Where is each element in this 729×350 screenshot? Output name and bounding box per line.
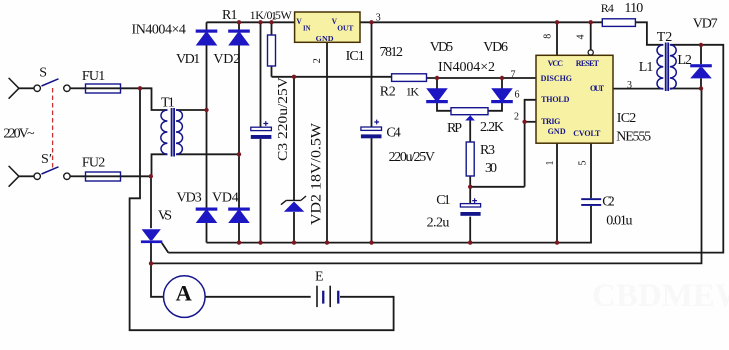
- node rail IC2 GND: [555, 240, 559, 244]
- svg-text:VD2: VD2: [213, 52, 240, 67]
- svg-text:OUT: OUT: [337, 23, 353, 32]
- capacitor C3: [251, 121, 272, 139]
- wire IC2 pin5 to C2: [590, 143, 592, 198]
- wire gate rail to T2 L2 top: [168, 45, 723, 253]
- node rail C3: [258, 240, 262, 244]
- svg-text:VD6: VD6: [483, 40, 508, 55]
- svg-text:C1: C1: [436, 193, 450, 208]
- svg-text:1: 1: [271, 8, 277, 22]
- svg-text:VCC: VCC: [548, 59, 564, 68]
- svg-text:30: 30: [485, 161, 497, 176]
- wire C2 bottom bend: [557, 206, 591, 243]
- wire IC2 pin4: [590, 22, 592, 50]
- switch S: [9, 78, 71, 99]
- svg-text:GND: GND: [548, 127, 566, 136]
- wire VD6 top lead: [501, 78, 503, 89]
- svg-text:4: 4: [576, 35, 587, 40]
- diode VD4: [228, 208, 250, 224]
- svg-text:7812: 7812: [380, 45, 404, 60]
- wire ammeter left: [151, 263, 163, 296]
- node secondary top: [204, 108, 208, 112]
- node pin8: [555, 20, 559, 24]
- svg-text:R4: R4: [601, 1, 614, 15]
- wire THOLD line: [525, 100, 536, 187]
- resistor R1: [268, 35, 276, 66]
- node pin4: [589, 20, 593, 24]
- wire VD6 bottom to RP: [488, 103, 502, 111]
- wire VD5 top lead: [436, 78, 438, 89]
- wire IC1 GND column: [326, 42, 328, 242]
- svg-text:THOLD: THOLD: [541, 95, 570, 104]
- svg-text:VD3: VD3: [177, 191, 202, 206]
- wire pin3 C4 column: [371, 22, 373, 242]
- resistor R4: [602, 19, 635, 27]
- svg-text:5: 5: [578, 161, 589, 166]
- node rail VD4: [237, 240, 241, 244]
- wire top rail left: [207, 21, 295, 23]
- capacitor C1: [460, 198, 480, 216]
- node VS cathode: [149, 261, 153, 265]
- zener diode VD2 18V: [281, 196, 306, 212]
- svg-text:VS: VS: [158, 208, 172, 223]
- resistor R2: [392, 74, 427, 82]
- svg-text:3: 3: [627, 80, 632, 91]
- wire through FU1 to junction: [81, 87, 140, 89]
- svg-text:DISCHG: DISCHG: [541, 74, 572, 83]
- transformer T1: [161, 110, 183, 154]
- wire R2 right to IC2 DISCHG: [427, 77, 537, 79]
- svg-text:IC1: IC1: [346, 49, 365, 64]
- fuse FU1: [86, 84, 121, 93]
- RESET pin bubble: [588, 50, 593, 55]
- node R3 bottom: [468, 185, 472, 189]
- wire S' to FU2: [70, 175, 81, 177]
- diode VD5: [426, 88, 448, 103]
- capacitor C2: [581, 198, 601, 206]
- wire L2 bottom lead: [670, 88, 701, 90]
- svg-text:R2: R2: [380, 85, 396, 100]
- diode VD3: [196, 208, 218, 224]
- svg-text:220u/25V: 220u/25V: [389, 150, 435, 165]
- node zener top: [292, 75, 296, 79]
- node secondary bottom: [237, 152, 241, 156]
- svg-text:C4: C4: [386, 126, 400, 141]
- wire VS gate diagonal: [162, 243, 169, 253]
- wire C1 node to TRIG column: [470, 186, 524, 188]
- svg-text:IN4004×4: IN4004×4: [132, 23, 186, 38]
- svg-text:L2: L2: [677, 53, 692, 68]
- potentiometer RP: [451, 108, 488, 121]
- wire RP wiper to R3: [469, 120, 471, 142]
- wire left rail down to bottom loop: [130, 88, 394, 330]
- wire zener column: [293, 77, 295, 243]
- node pin3: [369, 20, 373, 24]
- battery E: [316, 286, 339, 307]
- svg-text:OUT: OUT: [590, 84, 605, 93]
- wire C3 column: [260, 22, 262, 242]
- node FU2 junction: [149, 174, 153, 178]
- wire cathode rail to T2 L2 bottom: [151, 89, 702, 264]
- wire T1 secondary bottom to VD2 column: [176, 153, 239, 155]
- svg-text:R3: R3: [480, 143, 495, 158]
- svg-text:T1: T1: [161, 96, 175, 111]
- svg-text:CBDMEW: CBDMEW: [592, 278, 729, 314]
- node VD2 top: [237, 20, 241, 24]
- wire T1 primary bottom to FU2 junction: [152, 154, 168, 176]
- wire ammeter right to battery: [205, 296, 311, 298]
- pin number labels: [271, 8, 632, 165]
- svg-text:RESET: RESET: [576, 59, 600, 68]
- svg-text:VD2 18V/0.5W: VD2 18V/0.5W: [308, 122, 324, 225]
- wire FU1 junction to T1 primary top: [140, 88, 167, 110]
- svg-text:IN4004×2: IN4004×2: [438, 60, 495, 75]
- wire R1 leads: [271, 22, 273, 77]
- diode VD7: [690, 64, 712, 78]
- node R1 top: [269, 20, 273, 24]
- switch link dashed: [52, 88, 54, 170]
- switch S': [9, 166, 71, 187]
- svg-text:V: V: [296, 16, 302, 26]
- wire IC2 pin1 to ground rail: [556, 143, 558, 242]
- svg-text:GND: GND: [316, 34, 335, 43]
- node VD7 top: [699, 43, 703, 47]
- svg-text:NE555: NE555: [616, 129, 651, 144]
- node rail zener: [292, 240, 296, 244]
- op-amp IC1 box 7812: [295, 12, 360, 43]
- svg-text:E: E: [315, 270, 324, 285]
- svg-text:6: 6: [515, 90, 520, 101]
- wire input bottom: [19, 175, 34, 177]
- svg-text:S: S: [39, 66, 47, 81]
- wire through FU2 to junction: [81, 175, 151, 177]
- node VD6 top: [500, 76, 504, 80]
- svg-text:FU1: FU1: [82, 69, 105, 84]
- svg-text:2: 2: [312, 58, 323, 63]
- wire top rail right: [360, 21, 602, 23]
- wire input top live: [19, 87, 34, 89]
- transformer T2: [657, 45, 676, 89]
- wire TRIG line: [525, 121, 536, 123]
- svg-text:C3 220u/25V: C3 220u/25V: [276, 77, 291, 161]
- diode VD2: [228, 30, 250, 46]
- svg-text:C2: C2: [602, 194, 615, 209]
- svg-text:1: 1: [545, 161, 556, 166]
- node rail C1: [468, 240, 472, 244]
- wire S to FU1: [70, 87, 81, 89]
- svg-text:RP: RP: [447, 121, 462, 136]
- diode VD6: [491, 88, 513, 103]
- svg-text:VD7: VD7: [693, 17, 718, 32]
- wire IC2 pin8: [556, 22, 558, 55]
- thyristor VS: [141, 229, 162, 243]
- wire VD2-VD4 column: [238, 22, 240, 242]
- node VD5 top: [435, 76, 439, 80]
- svg-text:2.2K: 2.2K: [480, 120, 504, 135]
- svg-text:L1: L1: [639, 60, 654, 75]
- watermark: [592, 278, 729, 314]
- wire VD5 bottom to RP: [437, 103, 452, 111]
- svg-text:2.2u: 2.2u: [427, 216, 450, 231]
- node C3 top: [258, 20, 262, 24]
- svg-text:8: 8: [543, 34, 554, 39]
- node FU1 junction: [138, 86, 142, 90]
- svg-text:A: A: [176, 281, 192, 306]
- resistor R3: [466, 142, 474, 176]
- fuse FU2: [86, 172, 121, 181]
- svg-text:3: 3: [376, 12, 381, 23]
- node rail IC1 GND: [325, 240, 329, 244]
- svg-text:VD4: VD4: [212, 191, 239, 206]
- svg-text:VD1: VD1: [176, 52, 200, 67]
- svg-text:TRIG: TRIG: [541, 117, 560, 126]
- svg-text:7: 7: [511, 70, 516, 81]
- svg-text:S′: S′: [41, 152, 52, 167]
- wire R4 to T2: [635, 22, 663, 45]
- svg-text:0.01u: 0.01u: [606, 213, 632, 228]
- wire C1 column: [469, 187, 471, 243]
- svg-text:IC2: IC2: [617, 111, 637, 126]
- wire VD7 column: [700, 45, 702, 89]
- wire node line y77: [272, 76, 392, 78]
- svg-text:110: 110: [624, 1, 643, 16]
- svg-text:2: 2: [514, 112, 519, 123]
- svg-text:FU2: FU2: [82, 156, 105, 171]
- diode VD1: [196, 30, 218, 46]
- node VD7 bottom: [699, 86, 703, 90]
- wire VS anode: [150, 176, 152, 228]
- svg-text:CVOLT: CVOLT: [573, 129, 601, 138]
- svg-text:T2: T2: [657, 30, 672, 45]
- wire R3 bottom to C1 node: [469, 176, 471, 187]
- ammeter A: [164, 276, 206, 318]
- wire VD1 column: [206, 22, 208, 242]
- ground rail: [207, 242, 558, 244]
- svg-text:1K: 1K: [406, 85, 420, 99]
- node TRIG junction: [522, 120, 526, 124]
- svg-text:R1: R1: [222, 8, 238, 23]
- node rail C4: [369, 240, 373, 244]
- IC2 box NE555: [536, 55, 613, 143]
- wire VS cathode: [150, 243, 152, 263]
- svg-text:IN: IN: [303, 24, 311, 33]
- wire IC2 OUT to L1 bottom: [613, 88, 663, 90]
- svg-text:VD5: VD5: [430, 40, 453, 55]
- wire T1 secondary top to VD1 column: [176, 109, 207, 111]
- svg-text:220V~: 220V~: [3, 127, 35, 142]
- capacitor C4: [361, 120, 382, 139]
